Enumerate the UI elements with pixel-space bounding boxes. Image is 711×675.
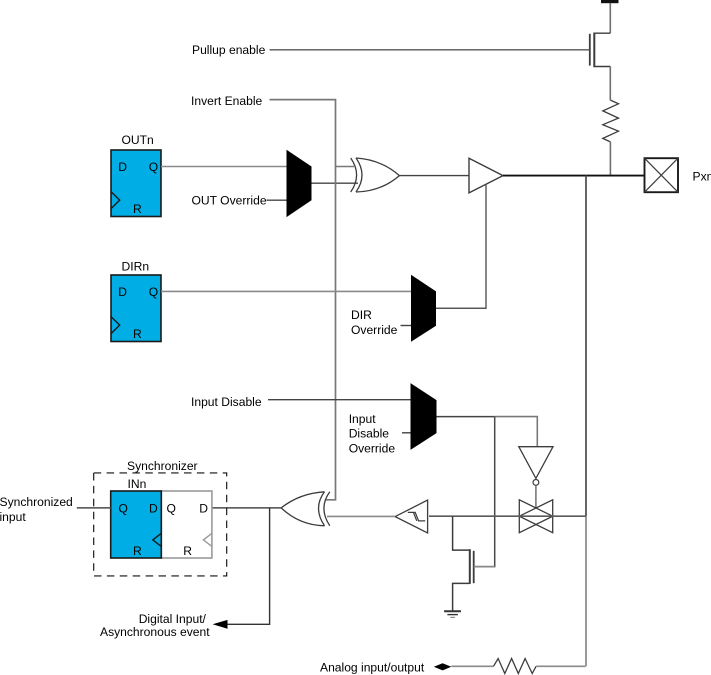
wire buffer enable from DIR mux <box>437 185 486 309</box>
arrow analog bidirectional <box>434 663 452 670</box>
svg-text:INn: INn <box>128 477 147 491</box>
wire OUTn Q to mux <box>161 166 287 168</box>
svg-text:OUT Override: OUT Override <box>192 194 267 208</box>
wire XOR out to synchronizer <box>212 507 281 509</box>
svg-text:Invert Enable: Invert Enable <box>191 94 263 108</box>
svg-text:Q: Q <box>149 285 158 299</box>
svg-text:DIRn: DIRn <box>122 260 150 274</box>
svg-text:D: D <box>149 502 158 516</box>
wire invert enable branch to XOR <box>336 166 355 168</box>
flip-flop OUTn <box>111 150 161 217</box>
svg-text:Q: Q <box>149 160 158 174</box>
wire pullup enable to gate <box>270 49 590 51</box>
wire bubble to analog switch <box>535 486 537 508</box>
mux input disable override <box>411 383 437 450</box>
wire schmitt out to XOR <box>327 515 395 517</box>
gate XOR output <box>351 158 400 192</box>
wire ID out to inverter <box>495 417 538 447</box>
transistor pullup PMOS <box>590 33 611 68</box>
svg-text:Digital Input/: Digital Input/ <box>139 612 207 626</box>
wire ID mux out <box>437 416 495 418</box>
svg-text:Override: Override <box>349 441 396 455</box>
inverter bubble <box>533 480 539 486</box>
mux DIR override <box>411 275 436 342</box>
ground <box>444 611 461 617</box>
svg-text:input: input <box>0 510 26 524</box>
svg-text:Analog input/output: Analog input/output <box>320 660 425 674</box>
wire schmitt line <box>429 515 586 517</box>
svg-text:R: R <box>133 544 142 558</box>
schmitt trigger <box>395 500 428 533</box>
wire invert enable net <box>270 100 336 500</box>
svg-text:R: R <box>133 327 142 341</box>
svg-text:Synchronizer: Synchronizer <box>127 459 198 473</box>
svg-text:D: D <box>118 285 127 299</box>
svg-text:Override: Override <box>351 323 398 337</box>
wire buffer to pad <box>503 175 645 177</box>
wire resistor to bus <box>536 665 586 667</box>
wire digital input branch <box>227 508 270 624</box>
wire XOR to buffer <box>399 175 469 177</box>
flip-flop sync stage2 (cyan) <box>111 491 162 558</box>
wire DIR Override stub <box>401 325 412 327</box>
wire pullup source to resistor <box>609 67 611 101</box>
svg-text:Q: Q <box>167 502 176 516</box>
buffer tri-state driver <box>469 158 503 193</box>
VDD rail bar <box>601 0 619 3</box>
wire OUT Override stub <box>267 199 287 201</box>
pad Pxn <box>645 158 679 192</box>
wire pad bus vertical <box>585 176 587 517</box>
synchronizer dashed box <box>94 473 227 576</box>
svg-text:Input: Input <box>349 412 377 426</box>
wire input disable to mux <box>268 399 411 401</box>
svg-text:DIR: DIR <box>351 308 372 322</box>
mux OUT override <box>287 150 312 217</box>
svg-text:Disable: Disable <box>349 427 390 441</box>
wire nmos gate <box>474 566 495 568</box>
svg-text:OUTn: OUTn <box>122 133 154 147</box>
wire analog to resistor <box>451 665 493 667</box>
transistor input nmos <box>453 516 474 611</box>
wire resistor to pad line <box>609 142 611 176</box>
svg-text:Pullup enable: Pullup enable <box>192 43 266 57</box>
wire DIR mux out <box>436 307 486 309</box>
svg-text:Synchronized: Synchronized <box>0 495 73 509</box>
wire VDD to pullup drain <box>609 3 611 33</box>
analog switch transmission gate <box>519 500 552 533</box>
inverter <box>519 447 553 479</box>
svg-text:Q: Q <box>119 502 128 516</box>
svg-text:D: D <box>199 502 208 516</box>
gate XOR input (mirrored) <box>281 492 330 526</box>
resistor pullup <box>603 100 619 142</box>
svg-text:R: R <box>183 544 192 558</box>
wire synchronized input <box>77 507 111 509</box>
arrow digital input <box>213 620 228 629</box>
resistor analog <box>494 659 537 674</box>
wire ID out to nmos gate <box>474 417 495 567</box>
wire mux out to XOR <box>312 182 359 184</box>
svg-text:Input Disable: Input Disable <box>191 395 262 409</box>
wire override stub <box>402 432 411 434</box>
svg-text:Asynchronous event: Asynchronous event <box>100 625 210 639</box>
wire DIRn Q to mux <box>161 290 411 292</box>
svg-text:R: R <box>133 202 142 216</box>
flip-flop sync stage1 (white) <box>161 491 212 558</box>
svg-text:D: D <box>118 160 127 174</box>
svg-text:Pxn: Pxn <box>693 169 711 183</box>
flip-flop DIRn <box>111 275 161 342</box>
